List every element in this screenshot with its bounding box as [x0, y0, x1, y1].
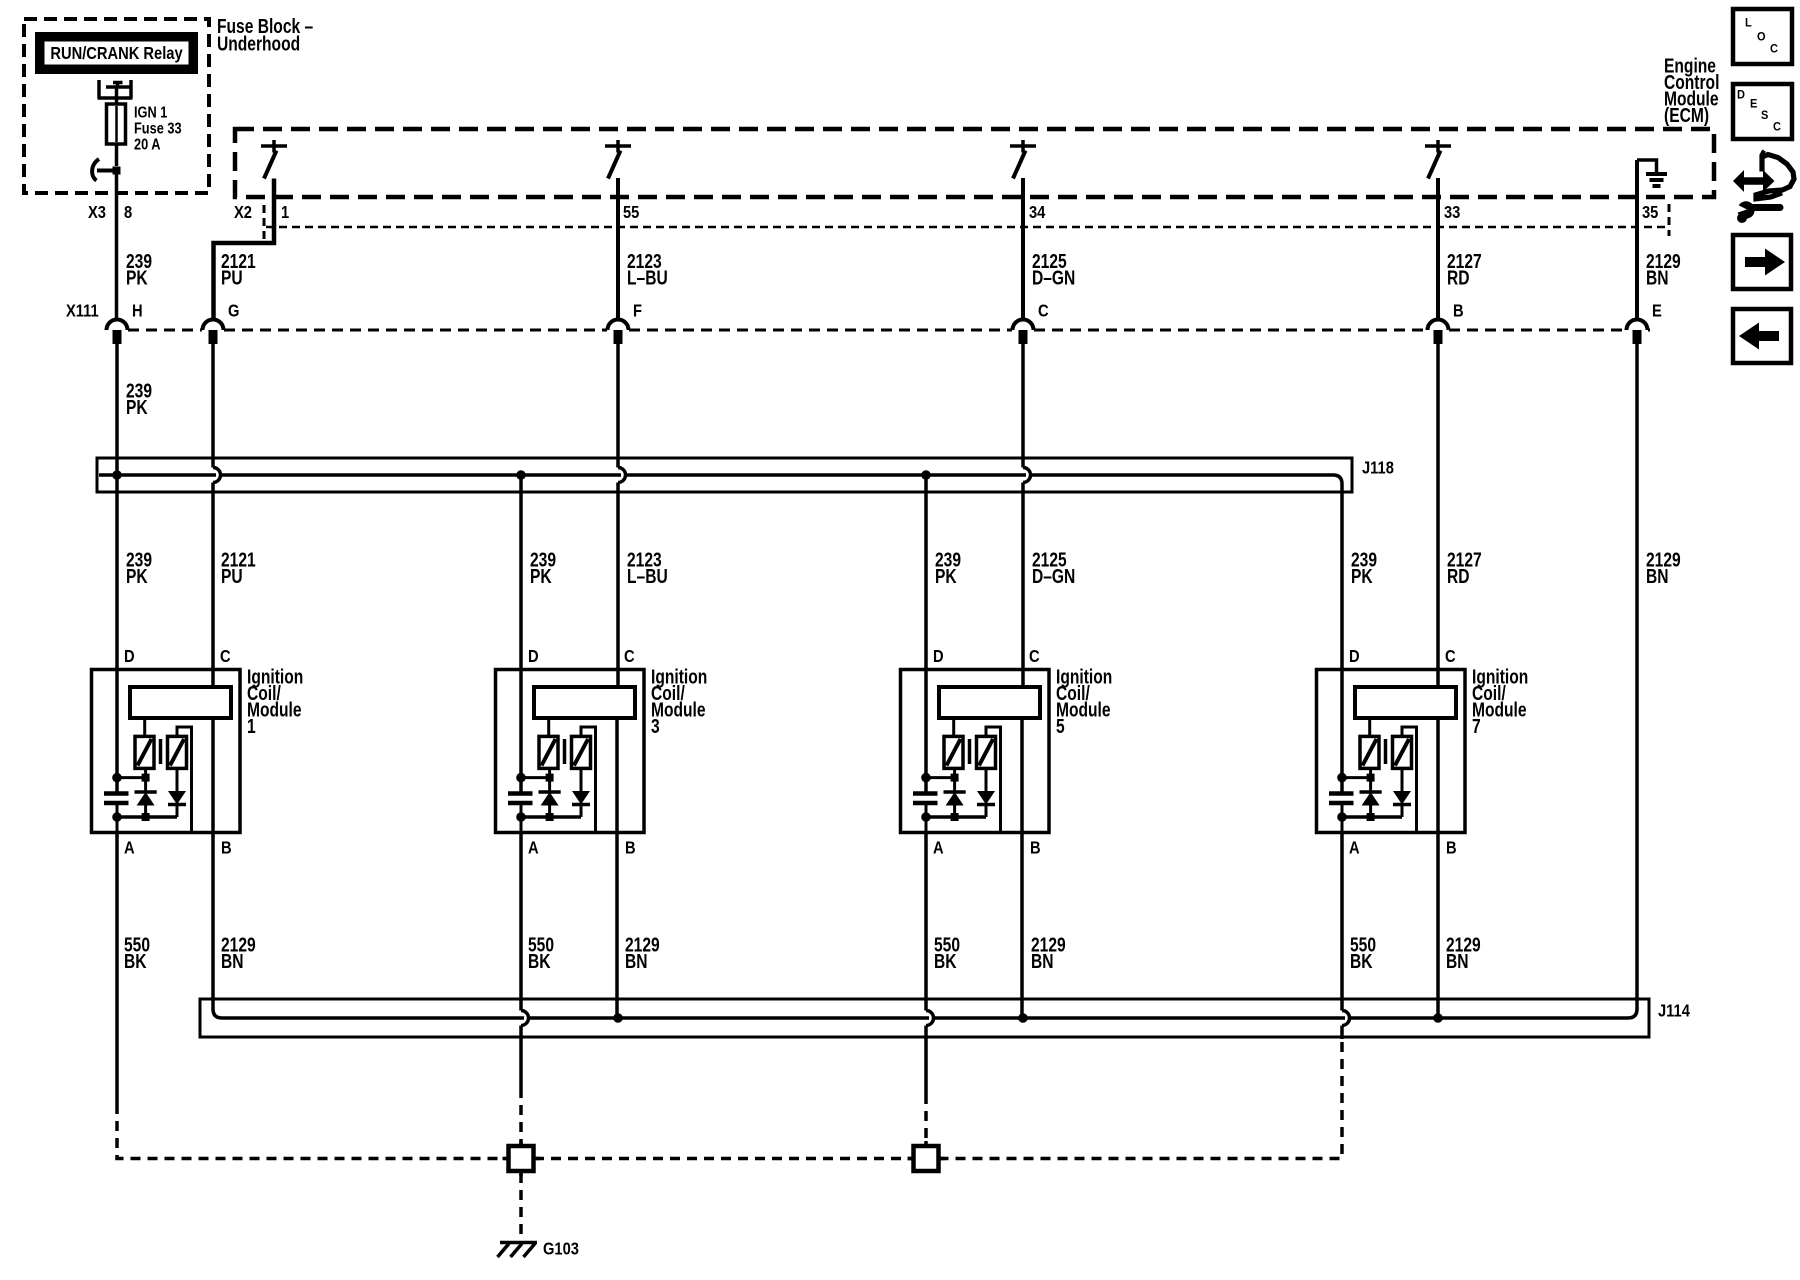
- svg-text:BK: BK: [124, 950, 147, 972]
- svg-text:B: B: [1446, 838, 1457, 857]
- wire 550 BK coil1 pin A down: [115, 833, 119, 1105]
- coil 1 gate bar: [159, 739, 163, 764]
- junction dot J118 / coil 3 feed: [517, 471, 526, 480]
- svg-text:BN: BN: [1446, 950, 1469, 972]
- ECM driver switch pin 1: [261, 140, 287, 153]
- svg-text:1: 1: [281, 203, 289, 222]
- wire 2123 L-BU from pin 55: [616, 178, 620, 318]
- RUN/CRANK Relay label box: [35, 32, 198, 74]
- svg-text:PK: PK: [935, 565, 957, 587]
- coil 1 node junction left: [113, 773, 122, 782]
- svg-text:A: A: [1349, 838, 1360, 857]
- coil 3 bottom rail: [521, 815, 581, 819]
- coil 7 diode right: [1401, 768, 1404, 791]
- X2 / ECM connector dashed line: [266, 226, 1665, 229]
- svg-text:S: S: [1761, 109, 1769, 121]
- coil 3 capacitor: [520, 778, 523, 793]
- fuse IGN 1 Fuse 33 20A: [107, 104, 126, 144]
- coil 7 secondary return wire: [1402, 727, 1417, 831]
- relay K frame: [98, 80, 133, 98]
- svg-text:X2: X2: [234, 203, 252, 222]
- engine control module (ECM) dashed enclosure: [235, 129, 1714, 197]
- coil 5 node junction left: [922, 773, 931, 782]
- ECM driver switch pin 33: [1425, 140, 1451, 153]
- fuse block - underhood (dashed enclosure): [24, 19, 209, 193]
- svg-text:E: E: [1750, 98, 1758, 110]
- J114 splice pack outer box: [200, 999, 1649, 1037]
- svg-text:D: D: [1737, 89, 1745, 101]
- wire 550 BK coil5 pin A down (hops J114): [924, 833, 928, 1095]
- dashed 550 BK coil1 to ground bus: [117, 1104, 508, 1159]
- svg-text:C: C: [1770, 43, 1778, 55]
- coil 1 secondary return wire: [177, 727, 192, 831]
- relay switch contact (hook): [97, 169, 117, 173]
- svg-text:J114: J114: [1658, 1001, 1690, 1020]
- svg-text:B: B: [221, 838, 232, 857]
- svg-text:A: A: [124, 838, 135, 857]
- wire hop over J114 at x=1342: [1342, 1011, 1350, 1026]
- svg-text:BN: BN: [1646, 267, 1669, 289]
- ECM driver switch pin 34: [1010, 140, 1036, 153]
- dashed 550 BK coil3 to splice: [519, 1088, 523, 1146]
- X111 pin G: [203, 320, 224, 331]
- coil 3 driver feed wire: [547, 718, 550, 736]
- svg-text:B: B: [1030, 838, 1041, 857]
- coil 5 bottom rail: [926, 815, 986, 819]
- icon: forward arrow box: [1733, 235, 1791, 289]
- svg-text:X3: X3: [88, 203, 106, 222]
- svg-text:C: C: [1445, 647, 1456, 666]
- svg-text:D: D: [1349, 647, 1360, 666]
- svg-text:5: 5: [1056, 715, 1065, 737]
- svg-text:L: L: [1745, 17, 1752, 29]
- coil 7 capacitor: [1341, 778, 1344, 793]
- coil 5 gate bar: [968, 739, 972, 764]
- coil 7 bottom rail: [1342, 815, 1402, 819]
- svg-text:8: 8: [124, 203, 132, 222]
- wire 239 PK J118 to coil3 D: [519, 475, 523, 793]
- wire 550 BK coil7 pin A down (hops J114): [1340, 833, 1344, 1040]
- dashed 550 BK coil7 to ground bus: [939, 1042, 1342, 1159]
- svg-text:20 A: 20 A: [134, 136, 161, 154]
- wire hop over J114 at x=521: [521, 1011, 529, 1026]
- svg-text:34: 34: [1029, 203, 1045, 222]
- svg-text:J118: J118: [1362, 458, 1394, 477]
- icon: back arrow box: [1733, 309, 1791, 363]
- svg-text:PK: PK: [126, 565, 148, 587]
- coil 1 capacitor: [116, 778, 119, 793]
- svg-text:X111: X111: [66, 301, 99, 320]
- coil 1 primary winding box: [130, 687, 231, 718]
- coil 7 ground-side wire to pin A: [1341, 817, 1344, 833]
- X111 pin C: [1013, 320, 1034, 331]
- junction dot J114 / coil 3 return: [614, 1014, 623, 1023]
- coil 5 secondary return wire: [986, 727, 1001, 831]
- relay armature contact: [106, 81, 131, 87]
- J118 internal bus wire: [99, 475, 1342, 492]
- icon: DESC box: [1733, 84, 1792, 139]
- icon: LOC box: [1733, 9, 1792, 64]
- coil 3 secondary return wire: [581, 727, 596, 831]
- icon: hand with double arrow and wrench: [1733, 170, 1775, 192]
- ground splice (coil 3): [509, 1146, 534, 1171]
- svg-text:PK: PK: [1351, 565, 1373, 587]
- ignition coil/module 3 outer box: [496, 670, 645, 833]
- svg-text:33: 33: [1444, 203, 1460, 222]
- wire 239 PK J118 end to coil7 D: [1340, 492, 1344, 793]
- coil 7 primary winding box: [1355, 687, 1456, 718]
- wire 2127 RD from pin 33: [1436, 178, 1440, 318]
- svg-text:1: 1: [247, 715, 256, 737]
- wire 2125 D-GN X111-C to coil5 C: [1021, 344, 1025, 688]
- coil 1 ground-side wire to pin A: [116, 817, 119, 833]
- ignition coil/module 7 outer box: [1317, 670, 1466, 833]
- X111 pin E: [1627, 320, 1648, 331]
- svg-text:BK: BK: [934, 950, 957, 972]
- svg-text:C: C: [220, 647, 231, 666]
- coil 5 capacitor: [925, 778, 928, 793]
- svg-text:(ECM): (ECM): [1664, 104, 1709, 126]
- svg-text:Underhood: Underhood: [217, 32, 300, 54]
- svg-text:L–BU: L–BU: [627, 267, 668, 289]
- svg-text:BN: BN: [1031, 950, 1054, 972]
- coil 3 zener diode left: [548, 768, 551, 792]
- pin35 separator: [1668, 204, 1671, 236]
- svg-text:PK: PK: [126, 396, 148, 418]
- svg-text:D: D: [124, 647, 135, 666]
- ignition coil/module 5 outer box: [901, 670, 1050, 833]
- svg-text:BN: BN: [625, 950, 648, 972]
- coil 5 primary winding box: [939, 687, 1040, 718]
- svg-text:BK: BK: [1350, 950, 1373, 972]
- coil 5 zener diode left: [953, 768, 956, 792]
- ECM internal ground pin 35: [1637, 160, 1657, 172]
- svg-text:PK: PK: [530, 565, 552, 587]
- wire 2129 BN coil3 pin B to J114: [615, 718, 619, 1018]
- wire 2121 PU X111-G to coil1 C: [211, 344, 215, 688]
- wire 2129 BN coil1 pin B to J114: [213, 718, 222, 1018]
- svg-text:E: E: [1652, 301, 1662, 320]
- coil 1 bottom rail: [117, 815, 177, 819]
- coil 1 diode right: [176, 768, 179, 791]
- junction dot J114 / coil 5 return: [1019, 1014, 1028, 1023]
- ground G103 symbol: [500, 1241, 537, 1245]
- svg-text:35: 35: [1642, 203, 1658, 222]
- coil 3 primary winding box: [534, 687, 635, 718]
- coil 7 zener diode left: [1369, 768, 1372, 792]
- wire 550 BK coil3 pin A down (hops J114): [519, 833, 523, 1089]
- ignition coil/module 1 outer box: [92, 670, 241, 833]
- wire 2129 BN coil5 pin B to J114: [1020, 718, 1024, 1018]
- wire 2129 BN X111-E down to J114: [1628, 344, 1637, 1019]
- coil 3 ground-side wire to pin A: [520, 817, 523, 833]
- svg-text:BN: BN: [221, 950, 244, 972]
- coil 3 gate bar: [563, 739, 567, 764]
- X111 connector dashed line: [128, 329, 1650, 332]
- wire hop over J118 at x=213: [213, 468, 221, 483]
- svg-text:C: C: [1029, 647, 1040, 666]
- coil 7 node junction left: [1338, 773, 1347, 782]
- wire 239 PK J118 to coil5 D: [924, 475, 928, 793]
- svg-text:C: C: [1038, 301, 1049, 320]
- svg-text:A: A: [933, 838, 944, 857]
- coil 5 diode right: [985, 768, 988, 791]
- svg-text:RD: RD: [1447, 565, 1470, 587]
- coil 1 zener diode left: [144, 768, 147, 792]
- coil 3 driver transistor 2: [572, 736, 591, 768]
- wire relay to fuse: [115, 87, 119, 104]
- dashed wire splice to G103: [519, 1173, 523, 1237]
- svg-text:B: B: [1453, 301, 1464, 320]
- wire fuse to relay-switch: [115, 144, 119, 166]
- coil 3 node junction left: [517, 773, 526, 782]
- svg-text:D: D: [933, 647, 944, 666]
- svg-text:H: H: [132, 301, 143, 320]
- wire 2129 BN coil7 pin B to J114: [1436, 718, 1440, 1018]
- coil 7 driver transistor 1: [1360, 736, 1379, 768]
- wire hop over J118 at x=618: [618, 468, 626, 483]
- ECM driver switch pin 55: [605, 140, 631, 153]
- svg-text:BN: BN: [1646, 565, 1669, 587]
- wire 2121 PU jog from ECM pin 1: [214, 179, 275, 319]
- X111 pin B: [1428, 320, 1449, 331]
- coil 7 gate bar: [1384, 739, 1388, 764]
- svg-text:7: 7: [1472, 715, 1481, 737]
- svg-text:D–GN: D–GN: [1032, 267, 1075, 289]
- X111 pin F: [608, 320, 629, 331]
- junction dot J114 / coil 7 return: [1434, 1014, 1443, 1023]
- svg-text:F: F: [633, 301, 642, 320]
- coil 7 driver transistor 2: [1393, 736, 1412, 768]
- wire hop over J118 at x=1023: [1023, 468, 1031, 483]
- coil 1 driver transistor 1: [135, 736, 154, 768]
- svg-text:B: B: [625, 838, 636, 857]
- wire hop over J114 at x=926: [926, 1011, 934, 1026]
- svg-text:O: O: [1757, 31, 1766, 43]
- svg-text:A: A: [528, 838, 539, 857]
- wire 2125 D-GN from pin 34: [1021, 178, 1025, 318]
- svg-text:RD: RD: [1447, 267, 1470, 289]
- coil 1 driver transistor 2: [168, 736, 187, 768]
- junction dot J118 / coil 5 feed: [922, 471, 931, 480]
- X111 pin H: [107, 320, 128, 331]
- svg-text:PU: PU: [221, 565, 243, 587]
- svg-text:D–GN: D–GN: [1032, 565, 1075, 587]
- coil 1 driver feed wire: [143, 718, 146, 736]
- svg-text:55: 55: [623, 203, 639, 222]
- wire 239 PK X111-H through J118 to coil1 D: [115, 344, 119, 793]
- coil 5 ground-side wire to pin A: [925, 817, 928, 833]
- coil 3 diode right: [580, 768, 583, 791]
- svg-text:D: D: [528, 647, 539, 666]
- wire X3-8 down to X111 pin H: [115, 174, 119, 318]
- wire 2123 L-BU X111-F to coil3 C: [616, 344, 620, 688]
- svg-text:PK: PK: [126, 267, 148, 289]
- dashed 550 BK coil5 to splice: [924, 1094, 928, 1146]
- svg-text:RUN/CRANK Relay: RUN/CRANK Relay: [50, 44, 182, 63]
- svg-text:G103: G103: [543, 1239, 579, 1258]
- X2 separator: [263, 205, 266, 243]
- svg-text:3: 3: [651, 715, 660, 737]
- J118 splice pack outer box: [97, 458, 1352, 492]
- dashed ground bus between splices: [534, 1157, 913, 1161]
- junction dot J118 / coil 1 feed: [113, 471, 122, 480]
- wire 2127 RD X111-B to coil7 C: [1436, 344, 1440, 688]
- coil 5 driver transistor 2: [977, 736, 996, 768]
- svg-text:C: C: [624, 647, 635, 666]
- coil 5 driver transistor 1: [944, 736, 963, 768]
- J114 internal bus wire: [222, 1016, 1628, 1020]
- svg-text:C: C: [1773, 121, 1781, 133]
- svg-text:L–BU: L–BU: [627, 565, 668, 587]
- svg-text:BK: BK: [528, 950, 551, 972]
- coil 5 driver feed wire: [952, 718, 955, 736]
- svg-text:G: G: [228, 301, 239, 320]
- svg-text:PU: PU: [221, 267, 243, 289]
- ground splice (coil 5): [914, 1146, 939, 1171]
- coil 7 driver feed wire: [1368, 718, 1371, 736]
- coil 3 driver transistor 1: [539, 736, 558, 768]
- wire 2129 BN from pin 35: [1635, 160, 1639, 318]
